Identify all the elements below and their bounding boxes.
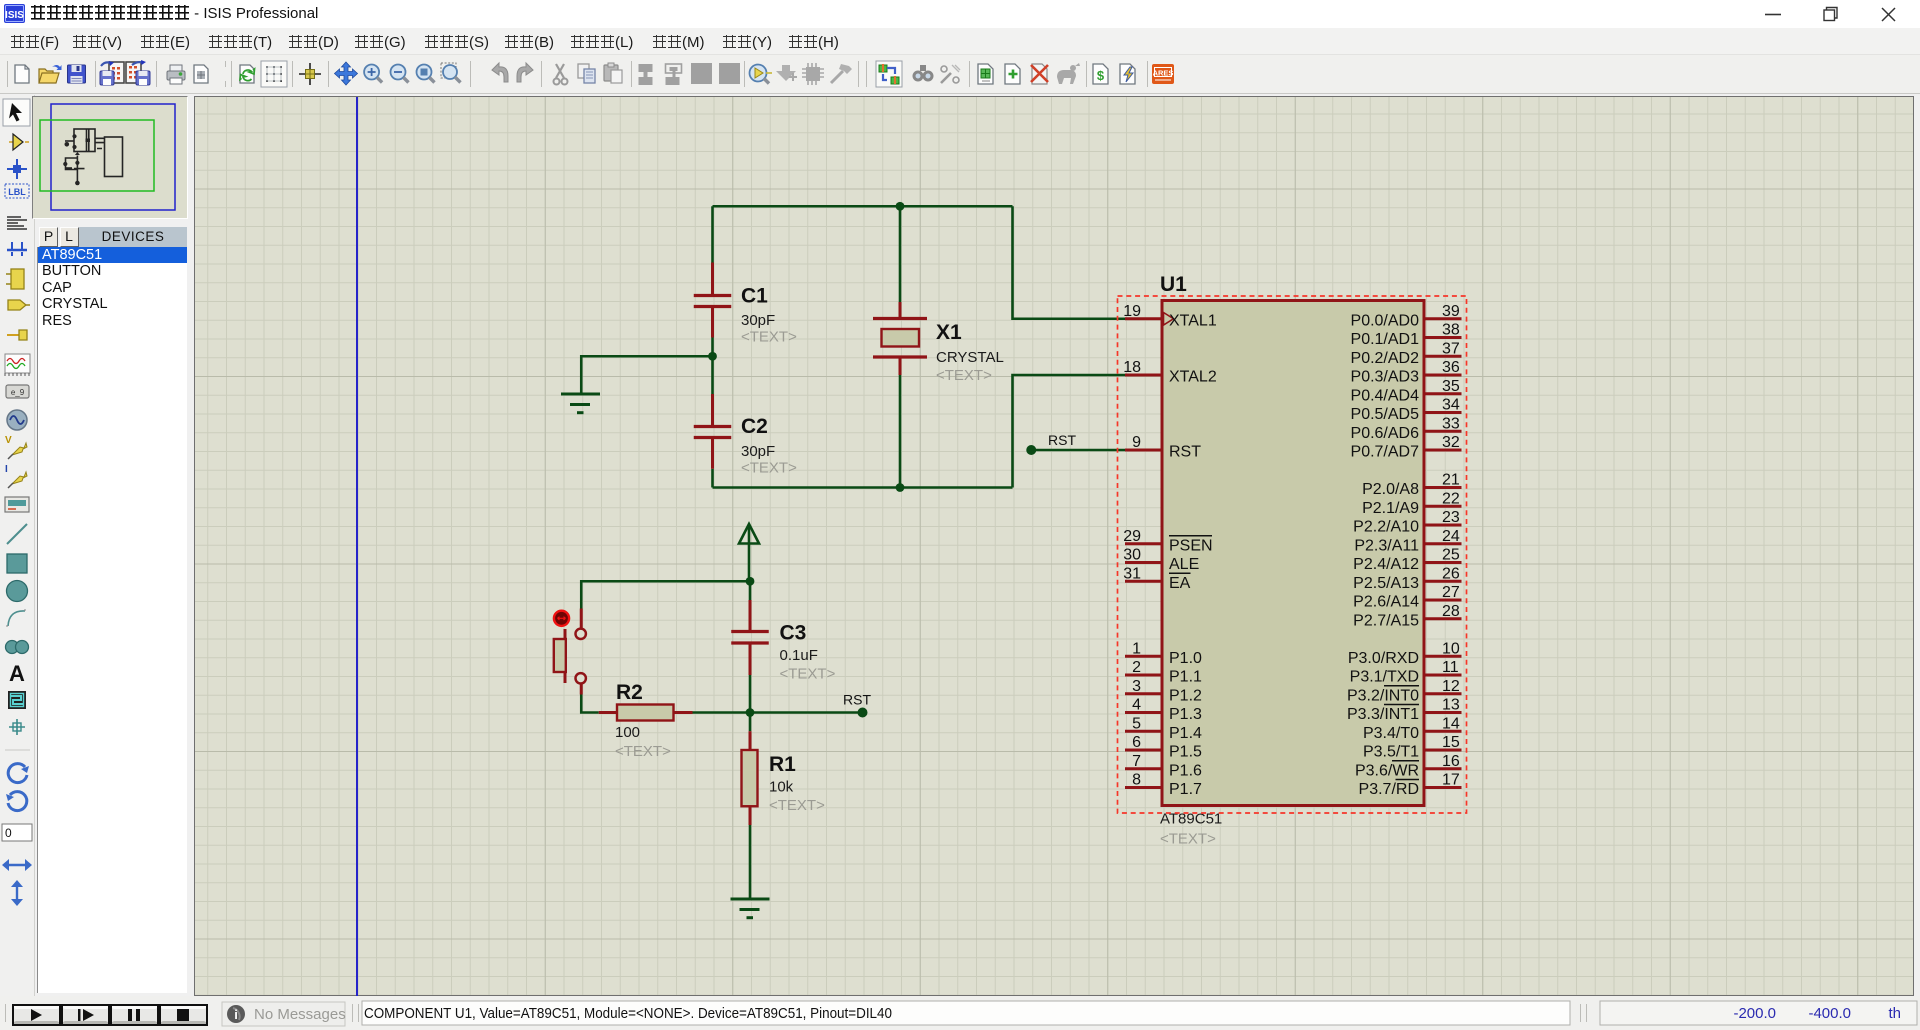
svg-text:P3.2/INT0: P3.2/INT0 [1347,687,1419,704]
2d circle [7,581,28,602]
wire: node to C2 top [711,356,714,394]
svg-text:8: 8 [1132,772,1141,789]
buses [7,249,27,252]
paste [604,63,622,83]
wire autorouter (pressed) [876,61,902,87]
U1 right pin names [1347,312,1419,798]
svg-text:P1.2: P1.2 [1169,687,1202,704]
U1 pin name overlines (PSEN, EA) [1169,536,1212,574]
svg-text:3: 3 [1132,678,1141,695]
svg-text:33: 33 [1442,415,1460,432]
power terminal (VCC) [739,524,759,581]
node RST (terminal near chip) [1026,445,1036,455]
junction dot mode [7,159,27,179]
svg-text:LBL: LBL [8,187,26,197]
svg-text:XTAL2: XTAL2 [1169,369,1217,386]
find [913,65,934,82]
svg-text:27: 27 [1442,584,1460,601]
separator [5,749,30,751]
svg-text:P3.7/RD: P3.7/RD [1359,781,1419,798]
wire: crystal top branch [899,206,902,302]
wire: button bottom to R2 [581,695,599,713]
wire: C2 bottom to bottom rail [711,469,714,488]
wire: oscillator bottom rail [713,486,1013,489]
wire: oscillator top rail [713,205,1013,208]
U1 selection highlight box [1118,296,1467,813]
angle edit [2,824,32,841]
svg-text:RST: RST [1169,444,1201,461]
svg-text:2: 2 [1132,659,1141,676]
erc [1120,64,1135,84]
zoom out [391,65,409,83]
svg-text:ISIS: ISIS [5,10,24,21]
svg-text:30: 30 [1123,547,1141,564]
svg-text:<TEXT>: <TEXT> [1160,831,1216,848]
svg-text:19: 19 [1123,303,1141,320]
svg-text:P0.6/AD6: P0.6/AD6 [1351,425,1420,442]
message area [222,1002,345,1026]
svg-text:26: 26 [1442,565,1460,582]
2d marker [9,719,25,735]
svg-text:<TEXT>: <TEXT> [936,367,992,384]
svg-text:C3: C3 [780,622,807,645]
rotate ccw [8,792,27,811]
svg-text:14: 14 [1442,715,1460,732]
design explorer [1057,63,1080,84]
svg-text:32: 32 [1442,434,1460,451]
junction node at C1/C2/ground [708,352,717,361]
svg-text:P2.6/A14: P2.6/A14 [1353,594,1419,611]
block move [666,64,682,85]
text script [7,217,27,229]
svg-text:<TEXT>: <TEXT> [741,460,797,477]
svg-text:38: 38 [1442,322,1460,339]
property assign [978,64,993,84]
redo [517,63,533,82]
svg-text:P0.7/AD7: P0.7/AD7 [1351,444,1420,461]
svg-text:C2: C2 [741,415,768,438]
svg-text:29: 29 [1123,528,1141,545]
new [15,65,29,83]
svg-text:P1.5: P1.5 [1169,744,1202,761]
wire: C1 top vertical [711,206,714,262]
undo [492,63,508,82]
wire: RST row to RST terminal [750,711,863,714]
svg-text:P2.1/A9: P2.1/A9 [1362,500,1419,517]
wire: power node to button top [581,581,749,608]
svg-text:0: 0 [5,826,12,840]
import sheet [100,61,124,85]
U1 left pin numbers [1123,303,1141,789]
svg-text:P0.3/AD3: P0.3/AD3 [1351,369,1420,386]
zoom extents [417,65,435,83]
svg-text:th: th [1888,1005,1901,1022]
svg-text:U1: U1 [1160,273,1187,296]
view part [750,65,773,84]
button (reset switch) [554,609,586,695]
resistor R2 [599,681,693,760]
tool/decompose [831,64,852,83]
svg-text:P0.4/AD4: P0.4/AD4 [1351,387,1420,404]
svg-text:31: 31 [1123,565,1141,582]
svg-text:P2.7/A15: P2.7/A15 [1353,612,1419,629]
package [802,63,824,85]
svg-text:P0.5/AD5: P0.5/AD5 [1351,406,1420,423]
svg-text:9: 9 [1132,434,1141,451]
junction node at top rail / crystal [896,202,905,211]
svg-text:16: 16 [1442,753,1460,770]
svg-text:28: 28 [1442,603,1460,620]
svg-text:4: 4 [1132,697,1141,714]
svg-text:30pF: 30pF [741,443,775,460]
svg-text:P2.3/A11: P2.3/A11 [1354,537,1419,554]
svg-text:1: 1 [1132,640,1141,657]
status field [362,1001,1570,1025]
pan [335,62,358,85]
wire: C1 bottom to node [711,338,714,357]
svg-text:P3.1/TXD: P3.1/TXD [1350,669,1419,686]
capacitor C1 [694,263,797,346]
device pin [7,334,19,336]
svg-text:P3.3/INT1: P3.3/INT1 [1347,706,1419,723]
svg-text:21: 21 [1442,472,1460,489]
origin [299,63,321,85]
svg-text:10k: 10k [769,779,794,796]
wire: power node to C3 [749,581,752,600]
svg-text:ALE: ALE [1169,556,1199,573]
overview mini schematic [65,129,123,183]
svg-text:30pF: 30pF [741,312,775,329]
svg-text:P3.4/T0: P3.4/T0 [1363,725,1419,742]
svg-text:R2: R2 [616,681,643,704]
ground (reset) [731,899,770,918]
export sheet [126,60,150,85]
svg-text:36: 36 [1442,359,1460,376]
svg-text:V: V [5,435,12,446]
print area [194,65,208,83]
open [39,65,62,83]
svg-text:I: I [5,464,8,475]
coordinates [1600,1001,1917,1025]
overview work area green frame [40,120,154,191]
ground (oscillator) [561,394,600,413]
svg-text:i: i [234,1007,238,1022]
svg-text:X1: X1 [936,321,962,344]
rotate cw [8,764,27,783]
junction node RST row [746,708,755,717]
svg-text:<TEXT>: <TEXT> [780,666,836,683]
2d box [7,554,27,573]
remove sheet [1031,64,1048,84]
wire: R2 to RST node [693,711,751,714]
wire: R1 bottom to ground [749,825,752,899]
svg-text:ARES: ARES [1153,69,1174,78]
refresh [240,65,255,83]
svg-text:A: A [9,661,25,686]
svg-text:P0.0/AD0: P0.0/AD0 [1351,312,1420,329]
graph mode [5,354,30,373]
svg-text:P3.6/WR: P3.6/WR [1355,762,1419,779]
capacitor C3 [731,600,835,683]
svg-text:5: 5 [1132,715,1141,732]
U1 XTAL1 clock mark [1164,313,1174,326]
ARES [1152,64,1174,84]
wire: bottom rail to XTAL2 [1013,375,1126,488]
svg-text:<TEXT>: <TEXT> [769,797,825,814]
svg-text:10: 10 [1442,640,1460,657]
svg-text:$: $ [1097,68,1105,83]
svg-text:12: 12 [1442,678,1460,695]
svg-text:15: 15 [1442,734,1460,751]
svg-text:XTAL1: XTAL1 [1169,312,1217,329]
svg-text:P1.7: P1.7 [1169,781,1202,798]
U1 right pin numbers [1442,303,1460,789]
svg-text:P1.1: P1.1 [1169,669,1202,686]
block rotate [691,63,712,84]
wire label LBL [5,184,29,198]
svg-text:35: 35 [1442,378,1460,395]
U1 left pin stubs [1125,319,1162,788]
wire: node to ground branch [581,356,712,393]
resistor R1 [742,731,826,825]
svg-text:R1: R1 [769,753,796,776]
goto part [776,65,797,81]
crystal X1 [873,302,1004,384]
save [68,65,86,83]
copy [578,64,595,83]
svg-text:25: 25 [1442,547,1460,564]
junction node at bottom rail / crystal [896,483,905,492]
svg-text:6: 6 [1132,734,1141,751]
capacitor C2 [694,394,797,477]
selection (pressed) [3,99,30,126]
wire: RST terminal to chip RST pin [1031,449,1125,452]
svg-text:P0.2/AD2: P0.2/AD2 [1351,350,1420,367]
svg-text:P1.6: P1.6 [1169,762,1202,779]
wire: top rail to XTAL1 [1013,206,1126,319]
svg-text:P1.4: P1.4 [1169,725,1202,742]
svg-text:COMPONENT U1, Value=AT89C51, M: COMPONENT U1, Value=AT89C51, Module=<NON… [364,1005,892,1022]
flip v [16,883,18,903]
U1 left pin names [1169,312,1217,798]
svg-text:P3.0/RXD: P3.0/RXD [1348,650,1419,667]
svg-text:RST: RST [843,692,871,708]
2d line [7,524,27,544]
svg-text:11: 11 [1442,659,1459,676]
node RST (terminal right of R2) [858,708,868,718]
svg-text:P2.2/A10: P2.2/A10 [1353,519,1419,536]
svg-text:0.1uF: 0.1uF [780,647,818,664]
playback buttons [12,1004,208,1026]
wire: crystal bottom branch [899,375,902,488]
tape recorder [6,385,29,398]
svg-text:CRYSTAL: CRYSTAL [936,349,1004,366]
svg-text:39: 39 [1442,303,1460,320]
svg-text:PSEN: PSEN [1169,537,1213,554]
block delete [719,63,740,84]
svg-text:13: 13 [1442,697,1460,714]
svg-text:-400.0: -400.0 [1808,1005,1851,1022]
virtual instruments [5,497,29,512]
svg-text:C1: C1 [741,285,768,308]
svg-text:22: 22 [1442,490,1460,507]
svg-text:7: 7 [1132,753,1141,770]
block copy [639,64,653,85]
subcircuit [11,269,24,289]
svg-text:P1.0: P1.0 [1169,650,1202,667]
overview viewport blue frame [51,104,175,210]
grid toggle (pressed) [261,61,287,87]
generator [7,410,27,430]
svg-text:P2.4/A12: P2.4/A12 [1353,556,1419,573]
property wand [941,65,960,83]
2d symbol [8,691,26,709]
2d closed path [6,641,19,654]
terminal [8,300,26,310]
svg-text:34: 34 [1442,397,1460,414]
wire: R1 top [749,713,752,732]
svg-text:P3.5/T1: P3.5/T1 [1363,744,1419,761]
svg-text:100: 100 [615,724,640,741]
zoom area [441,63,461,83]
svg-text:e_9: e_9 [11,388,25,397]
svg-text:RST: RST [1048,432,1076,448]
junction node below power [746,577,755,586]
U1 pin name overlines (INT0, INT1, WR, RD) [1384,686,1419,780]
svg-text:37: 37 [1442,340,1460,357]
2d arc [8,611,25,626]
svg-text:P1.3: P1.3 [1169,706,1202,723]
svg-text:<TEXT>: <TEXT> [615,743,671,760]
svg-text:-200.0: -200.0 [1733,1005,1776,1022]
svg-text:23: 23 [1442,509,1460,526]
print [167,65,185,84]
svg-text:P0.1/AD1: P0.1/AD1 [1351,331,1420,348]
svg-text:EA: EA [1169,575,1191,592]
component mode [9,141,29,143]
svg-text:No Messages: No Messages [254,1006,346,1023]
svg-text:18: 18 [1123,359,1141,376]
svg-text:24: 24 [1442,528,1460,545]
new sheet [1005,64,1020,84]
flip h [5,864,29,866]
svg-text:<TEXT>: <TEXT> [741,329,797,346]
wire: C3 to RST node [749,675,752,713]
cut [554,64,568,85]
svg-text:17: 17 [1442,772,1460,789]
U1 right pin stubs [1424,319,1462,788]
chip U1 (AT89C51) [1160,273,1424,848]
svg-text:P2.5/A13: P2.5/A13 [1353,575,1419,592]
zoom in [364,65,382,83]
bom [1093,64,1108,84]
svg-text:P2.0/A8: P2.0/A8 [1362,481,1419,498]
